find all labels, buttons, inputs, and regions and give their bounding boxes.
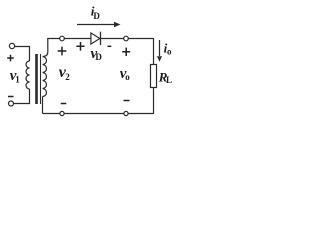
source label v1 [10,68,20,84]
wire secondary bottom feed [42,97,44,114]
label v2 minus [61,103,67,105]
wire bottom left [43,113,60,115]
wire diode to node B [101,38,124,40]
current arrow io [157,40,162,62]
diode D triangle (anode) [91,33,100,44]
label v1 plus [7,55,14,61]
svg-text:1: 1 [15,74,20,84]
wire RL bottom to corner [128,88,153,114]
wire v1 bottom [14,89,30,104]
label io [164,41,172,57]
label v2 [59,64,71,82]
wire secondary top feed [43,39,60,57]
svg-text:2: 2 [65,72,70,82]
label v1 minus [8,96,14,98]
label vD plus [76,42,84,51]
terminal top-left [9,43,14,48]
transformer T secondary winding [43,57,47,97]
junction node B [124,36,129,41]
transformer core [35,54,38,104]
label vo minus [124,100,130,102]
current arrow iD [77,22,121,27]
label vD [91,46,103,62]
wire bottom middle [64,113,124,115]
svg-text:D: D [93,11,100,21]
junction node C [124,111,128,115]
label vo [120,66,131,82]
resistor RL body [151,65,157,88]
label v2 plus [58,47,67,56]
label iD [91,4,101,21]
wire node A to diode [64,38,91,40]
label vD minus [108,45,112,47]
svg-text:L: L [166,75,172,85]
wire v1 top [15,47,30,62]
diode D cathode bar [100,32,102,46]
label vo plus [122,48,130,56]
terminal bottom-left [9,101,14,106]
svg-text:o: o [167,46,172,56]
junction node D [60,111,64,115]
junction node A [60,36,65,41]
svg-text:D: D [95,52,102,62]
label RL [158,69,172,85]
wire node B to top-right corner [128,39,153,65]
transformer T primary winding [26,61,30,89]
svg-text:o: o [125,72,130,82]
